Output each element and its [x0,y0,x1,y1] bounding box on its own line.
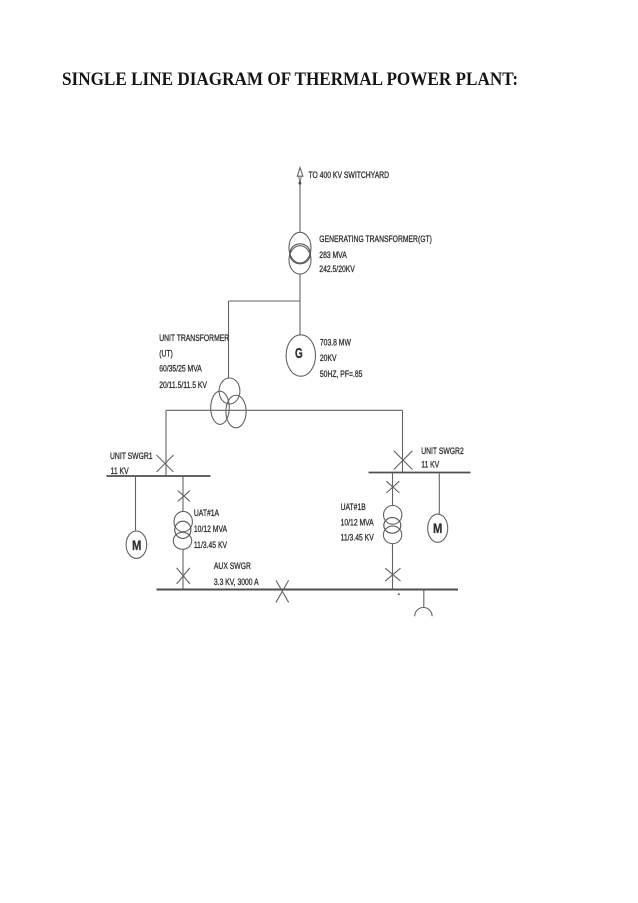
svg-text:M: M [132,538,141,553]
label UNIT SWGR1 [110,451,153,477]
svg-text:M: M [433,521,442,536]
svg-text:703.8 MW: 703.8 MW [320,337,351,347]
svg-text:11/3.45 KV: 11/3.45 KV [341,533,375,543]
svg-text:TO 400 KV SWITCHYARD: TO 400 KV SWITCHYARD [309,170,390,180]
label UAT#1B [341,502,375,543]
motor M2 [428,514,448,542]
wire arrow to GT [299,185,301,233]
label UNIT SWGR2 [421,446,464,470]
transformer GT (generating transformer) [289,232,311,274]
wire SWGR2 to motor M2 [438,474,440,515]
generator G [286,335,315,376]
svg-text:11/3.45 KV: 11/3.45 KV [194,540,228,550]
breaker X on aux bus [276,580,289,602]
svg-text:AUX SWGR: AUX SWGR [214,561,251,571]
breaker X above UAT#1A [178,491,190,502]
label UAT#1A [194,508,228,550]
label unit transformer UT [159,333,229,390]
bus UNIT SWGR2 [369,472,471,474]
svg-text:11 KV: 11 KV [421,459,440,469]
bus AUX SWGR [157,589,459,591]
svg-text:3.3 KV, 3000 A: 3.3 KV, 3000 A [214,577,259,587]
svg-text:UAT#1B: UAT#1B [341,502,366,512]
svg-text:242.5/20KV: 242.5/20KV [319,264,355,274]
svg-text:(UT): (UT) [159,348,173,358]
svg-text:10/12 MVA: 10/12 MVA [341,517,375,527]
svg-text:UNIT SWGR1: UNIT SWGR1 [110,451,153,461]
breaker X below UAT#1B [385,568,400,581]
svg-text:50HZ, PF=.85: 50HZ, PF=.85 [320,369,363,379]
breaker X above UAT#1B [386,481,399,493]
wire right drop to SWGR2 [402,410,404,472]
bus UNIT SWGR1 [107,475,211,477]
svg-text:10/12 MVA: 10/12 MVA [194,524,228,534]
wire GT to generator [299,274,301,335]
wire aux bus to transformer stub [423,590,425,608]
svg-text:UNIT SWGR2: UNIT SWGR2 [421,446,464,456]
svg-text:G: G [295,345,303,362]
wire UT output horizontal [166,409,403,411]
svg-text:GENERATING TRANSFORMER(GT): GENERATING TRANSFORMER(GT) [319,234,432,244]
svg-text:11 KV: 11 KV [111,466,130,476]
wire SWGR1 to UAT#1A leg [182,477,184,512]
svg-text:20/11.5/11.5 KV: 20/11.5/11.5 KV [159,380,207,390]
label AUX SWGR [214,561,259,587]
motor M1 [126,531,147,558]
arrow to 400 KV switchyard [297,168,303,185]
breaker X right SWGR2 feed [394,451,413,470]
wire left drop to SWGR1 [165,410,167,475]
breaker X below UAT#1A [177,568,190,584]
breaker X left SWGR1 feed [157,455,174,472]
svg-text:UNIT TRANSFORMER: UNIT TRANSFORMER [159,333,229,343]
transformer stub arc (cut off at scan edge) [415,608,432,617]
transformer UAT#1A [173,511,192,549]
svg-text:20KV: 20KV [320,353,337,363]
wire tee to unit transformer [228,301,230,379]
wire SWGR1 to motor M1 [135,477,137,531]
transformer UAT#1B [383,506,402,544]
node dot on aux bus [398,593,400,595]
svg-text:UAT#1A: UAT#1A [194,508,220,518]
transformer UT (3-winding) [211,378,246,428]
label GENERATING TRANSFORMER(GT) [319,234,432,274]
title [62,71,518,90]
wire SWGR2 to UAT#1B leg [392,474,394,506]
label generator ratings [320,337,363,379]
wire tee horizontal [229,300,301,302]
svg-text:60/35/25 MVA: 60/35/25 MVA [159,364,202,374]
svg-text:283 MVA: 283 MVA [319,250,347,260]
